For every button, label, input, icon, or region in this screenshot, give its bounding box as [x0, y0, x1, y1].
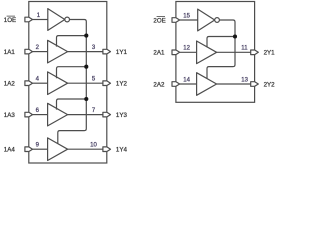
svg-text:13: 13 [241, 77, 248, 83]
wire 2A2 input [180, 83, 197, 85]
wire 1A1 input [33, 51, 48, 53]
svg-text:2A1: 2A1 [153, 50, 165, 57]
wire 1OE input [33, 19, 48, 21]
svg-text:15: 15 [183, 13, 190, 19]
wire 1Y4 output [68, 148, 104, 150]
svg-text:14: 14 [183, 77, 190, 83]
output terminal pin 3 (1Y1) [103, 49, 111, 54]
inverter U2 (2OE) [198, 9, 215, 31]
input terminal pin 15 (2OE) [172, 18, 180, 23]
wire 1Y2 output [68, 82, 104, 84]
output terminal pin 10 (1Y4) [103, 147, 111, 152]
input terminal pin 2 (1A1) [25, 49, 33, 54]
svg-text:1Y3: 1Y3 [116, 112, 128, 119]
wire 1A4 input [33, 148, 48, 150]
wire 1A3 input [33, 114, 48, 116]
svg-text:2Y2: 2Y2 [264, 81, 276, 88]
svg-text:1A1: 1A1 [4, 49, 16, 56]
junction enable branch 3 [84, 97, 88, 101]
wire 2Y2 output [217, 83, 252, 85]
svg-text:12: 12 [183, 46, 190, 52]
wire 1Y1 output [68, 51, 104, 53]
svg-text:10: 10 [90, 143, 97, 149]
output terminal pin 5 (1Y2) [103, 81, 111, 86]
wire enable branch 2 [57, 67, 87, 79]
input terminal pin 6 (1A3) [25, 112, 33, 117]
svg-text:1Y1: 1Y1 [116, 49, 128, 56]
wire enable branch 1 [57, 36, 87, 47]
svg-text:2Y1: 2Y1 [264, 50, 276, 57]
right block outline (2OE section) [176, 2, 255, 103]
junction enable branch 2 [84, 65, 88, 69]
three-state buffer G4 (1A4&#8594;1Y4) [48, 138, 68, 161]
three-state buffer G3 (1A3&#8594;1Y3) [48, 103, 68, 126]
input terminal pin 4 (1A2) [25, 81, 33, 86]
svg-text:2OE: 2OE [153, 17, 165, 24]
svg-text:1Y2: 1Y2 [116, 81, 128, 88]
svg-text:1A3: 1A3 [4, 112, 16, 119]
three-state buffer G1 (1A1&#8594;1Y1) [48, 40, 68, 63]
output terminal pin 7 (1Y3) [103, 112, 111, 117]
svg-text:2A2: 2A2 [153, 81, 165, 88]
wire 1A2 input [33, 82, 48, 84]
junction enable branch 5 [233, 34, 237, 38]
three-state buffer G5 (2A1&#8594;2Y1) [197, 41, 217, 64]
left block outline (1OE section) [29, 2, 107, 164]
wire 2A1 input [180, 51, 197, 53]
svg-text:1A4: 1A4 [4, 147, 16, 154]
three-state buffer G2 (1A2&#8594;1Y2) [48, 72, 68, 95]
input terminal pin 1 (1OE) [25, 17, 33, 22]
svg-text:1A2: 1A2 [4, 81, 16, 88]
output terminal pin 13 (2Y2) [251, 82, 259, 87]
wire enable bus 1OE [58, 20, 87, 144]
input terminal pin 12 (2A1) [172, 50, 180, 55]
wire 2Y1 output [217, 51, 252, 53]
svg-text:1Y4: 1Y4 [116, 147, 128, 154]
wire 1Y3 output [68, 114, 104, 116]
wire enable bus 2OE [207, 20, 235, 79]
three-state buffer G6 (2A2&#8594;2Y2) [197, 73, 217, 96]
output terminal pin 11 (2Y1) [251, 50, 259, 55]
svg-text:11: 11 [241, 46, 248, 52]
input terminal pin 14 (2A2) [172, 82, 180, 87]
wire enable branch 3 [57, 99, 87, 110]
wire 2OE input [180, 19, 198, 21]
inverter U1 (1OE) [48, 9, 65, 31]
wire enable branch 5 [207, 37, 235, 48]
junction enable branch 1 [84, 34, 88, 38]
svg-text:1OE: 1OE [4, 17, 16, 24]
input terminal pin 9 (1A4) [25, 147, 33, 152]
